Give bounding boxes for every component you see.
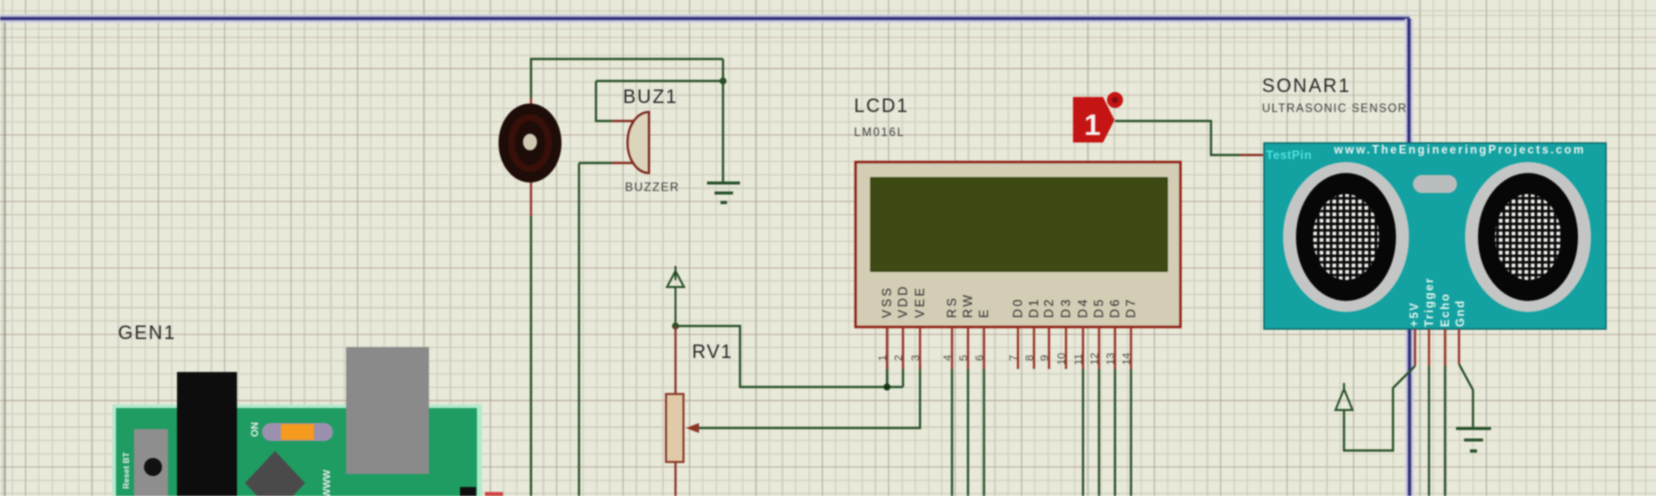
svg-text:Trigger: Trigger — [1424, 277, 1436, 327]
pin: sonar Trigger stub — [1428, 329, 1430, 366]
svg-text:LM016L: LM016L — [854, 127, 905, 139]
svg-text:5: 5 — [958, 355, 970, 361]
svg-text:VDD: VDD — [896, 284, 910, 318]
ground: buzzer ground symbol — [707, 183, 740, 203]
svg-text:+5V: +5V — [1409, 301, 1421, 327]
arduino ISP diamond — [245, 451, 305, 496]
wire: probe to sonar TestPin — [1115, 121, 1240, 155]
LCD1 screen — [871, 178, 1167, 271]
LCD pin numbers rotated — [877, 353, 1133, 365]
svg-text:1: 1 — [877, 355, 889, 361]
sonar pin labels rotated — [1409, 277, 1467, 327]
wire: sonar Gnd to ground — [1459, 364, 1473, 428]
svg-text:7: 7 — [1008, 355, 1020, 361]
wire: pin2 VDD drop — [902, 369, 904, 387]
svg-text:14: 14 — [1121, 353, 1133, 365]
speaker LS (black donut) — [499, 104, 562, 183]
pin: RV1 wiper arrow — [686, 423, 699, 433]
logic probe 1 — [1073, 92, 1123, 143]
svg-text:BUZZER: BUZZER — [625, 180, 680, 194]
wire: speaker top to bus node — [531, 59, 723, 98]
svg-text:D0: D0 — [1011, 297, 1025, 318]
svg-text:8: 8 — [1024, 355, 1036, 361]
wire: RV1 top to LCD VSS/VDD — [676, 326, 904, 387]
svg-text:D1: D1 — [1027, 297, 1041, 318]
wire: buzzer top pin drop — [596, 81, 612, 121]
pin: RV1 upper pin — [674, 326, 676, 394]
wire: RV1 wiper to LCD VEE — [697, 365, 920, 428]
svg-text:1: 1 — [1084, 109, 1101, 142]
pin: sonar TestPin stub — [1240, 154, 1263, 156]
wire: vertical to buzzer ground — [722, 59, 724, 182]
svg-text:VEE: VEE — [913, 285, 927, 318]
wire: sonar Echo long vertical — [1444, 366, 1446, 496]
wire: buzzer bottom pin horizontal — [579, 162, 612, 164]
svg-text:RV1: RV1 — [692, 342, 733, 363]
pin: sonar +5V stub — [1414, 329, 1416, 366]
svg-text:Reset BT: Reset BT — [121, 451, 131, 489]
svg-text:D3: D3 — [1059, 297, 1073, 318]
sheet left border — [4, 20, 6, 496]
svg-text:Echo: Echo — [1440, 292, 1452, 327]
pin: sonar Echo stub — [1444, 329, 1446, 366]
wire: D7 long vertical — [1130, 369, 1132, 496]
svg-text:6: 6 — [974, 355, 986, 361]
pin: RV1 lower pin — [674, 462, 676, 496]
wire: blue bus top horizontal — [0, 14, 1410, 23]
wire: buzzer bottom to arduino (long vertical) — [578, 163, 580, 496]
svg-text:13: 13 — [1105, 353, 1117, 365]
svg-text:9: 9 — [1039, 355, 1051, 361]
svg-text:RW: RW — [961, 292, 975, 318]
arduino red pad — [485, 492, 503, 496]
svg-text:11: 11 — [1073, 354, 1085, 365]
LCD1 body — [856, 162, 1181, 327]
arduino power LED — [262, 423, 333, 441]
sonar left transducer — [1283, 162, 1409, 312]
arduino barrel jack — [177, 372, 237, 496]
svg-text:RS: RS — [945, 296, 959, 318]
wire: buzzer top feed horizontal — [596, 80, 723, 82]
wire: D4 long vertical — [1082, 369, 1084, 496]
arduino corner chip — [460, 487, 476, 496]
sonar crystal pill — [1413, 175, 1457, 193]
svg-text:BUZ1: BUZ1 — [623, 87, 678, 108]
wire: pin1 VSS drop — [886, 369, 888, 387]
svg-text:LCD1: LCD1 — [854, 96, 909, 117]
pin: speaker top red stub — [530, 98, 532, 110]
wire: E long vertical — [983, 369, 985, 496]
svg-text:12: 12 — [1089, 353, 1101, 365]
svg-text:2: 2 — [893, 355, 905, 361]
wire: speaker bottom long vertical — [530, 216, 532, 496]
svg-text:SONAR1: SONAR1 — [1262, 76, 1351, 97]
pin: buzzer bottom pin stub — [612, 162, 636, 164]
svg-text:D2: D2 — [1042, 297, 1056, 318]
svg-text:E: E — [977, 307, 991, 318]
node junction RV1 top — [672, 323, 679, 330]
svg-text:GEN1: GEN1 — [118, 323, 176, 344]
svg-text:D5: D5 — [1092, 297, 1106, 318]
svg-text:ON: ON — [250, 422, 261, 437]
wire: D6 long vertical — [1114, 369, 1116, 496]
svg-text:4: 4 — [942, 355, 954, 361]
svg-text:VSS: VSS — [880, 285, 894, 318]
ground: sonar ground symbol — [1456, 429, 1491, 452]
svg-text:Gnd: Gnd — [1455, 299, 1467, 327]
sonar board — [1264, 143, 1606, 329]
sonar right transducer — [1465, 162, 1591, 312]
pin: speaker bottom red stub — [530, 178, 532, 216]
pin: buzzer top pin stub — [612, 120, 636, 122]
power arrow sonar +5V — [1336, 383, 1353, 450]
node junction at VSS — [884, 384, 891, 391]
svg-text:WWW: WWW — [322, 469, 333, 496]
wire: sonar +5V to power arrow — [1344, 366, 1415, 451]
arduino reset button — [134, 429, 168, 496]
LCD pin stubs (red) pins 1-14 — [887, 327, 1131, 369]
svg-text:D7: D7 — [1124, 297, 1138, 318]
svg-text:10: 10 — [1056, 353, 1068, 365]
pin: sonar Gnd stub — [1458, 329, 1460, 364]
wire: sonar Trigger long vertical — [1428, 366, 1430, 496]
arduino usb connector — [346, 347, 429, 474]
wire: RW long vertical — [967, 369, 969, 496]
svg-text:D4: D4 — [1076, 297, 1090, 318]
svg-text:TestPin: TestPin — [1266, 148, 1312, 162]
svg-text:3: 3 — [910, 355, 922, 361]
resistor RV1 body — [666, 394, 684, 462]
svg-text:www.TheEngineeringProjects.com: www.TheEngineeringProjects.com — [1333, 145, 1586, 157]
wire: D5 long vertical — [1098, 369, 1100, 496]
arduino board GEN1 — [113, 405, 483, 496]
wire: blue bus vertical upper — [1405, 19, 1414, 144]
buzzer BUZ1 symbol (half dome) — [628, 112, 650, 173]
power arrow RV1 +5V — [667, 266, 684, 326]
svg-text:ULTRASONIC SENSOR: ULTRASONIC SENSOR — [1262, 103, 1407, 115]
LCD pin names rotated — [880, 284, 1138, 318]
wire: blue bus vertical lower — [1405, 329, 1414, 496]
node junction at buzzer net — [720, 78, 727, 85]
svg-text:D6: D6 — [1108, 297, 1122, 318]
wire: RS long vertical — [951, 369, 953, 496]
